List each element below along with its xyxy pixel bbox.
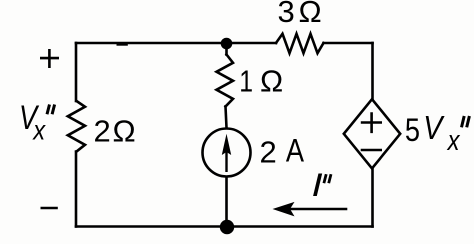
wire middle lower: [225, 178, 228, 228]
polarity plus sign top-left: [40, 49, 59, 68]
node dot bottom: [220, 220, 234, 234]
wire middle upper: [225, 43, 228, 55]
wire top-left horizontal: [76, 42, 276, 45]
dependent source diamond: [344, 99, 400, 168]
svg-text:V: V: [423, 109, 445, 146]
wire right upper vertical: [371, 43, 374, 99]
label double prime (left V_x''): [47, 105, 55, 115]
svg-text:I: I: [312, 167, 323, 203]
wire left vertical upper: [75, 43, 78, 101]
wire bottom horizontal: [76, 225, 373, 228]
wire middle to current source: [226, 107, 227, 128]
svg-text:5: 5: [405, 113, 420, 149]
current arrow I'' shaft: [288, 208, 346, 211]
svg-text:x: x: [446, 124, 461, 157]
node dot top: [221, 38, 233, 50]
current source arrow pointing up: [222, 134, 231, 155]
svg-text:Ω: Ω: [299, 0, 322, 29]
label double prime (I''): [324, 174, 331, 183]
current source 2A circle: [203, 129, 251, 177]
svg-text:2: 2: [94, 114, 111, 149]
resistor R1 3 ohm (horizontal zigzag): [276, 34, 324, 53]
minus sign inside diamond: [361, 149, 382, 152]
svg-text:Ω: Ω: [260, 64, 283, 99]
wire right lower vertical: [371, 168, 374, 226]
wire top-right horizontal: [324, 42, 373, 45]
polarity minus sign bottom-left: [41, 207, 58, 210]
wire left vertical lower: [75, 152, 78, 227]
svg-text:x: x: [31, 113, 46, 145]
current arrow I'' head pointing left: [273, 202, 295, 217]
resistor R2 2 ohm (vertical zigzag): [68, 101, 85, 152]
svg-text:2: 2: [260, 135, 277, 170]
svg-text:A: A: [286, 133, 304, 169]
svg-text:3: 3: [278, 0, 295, 29]
resistor R3 1 ohm (vertical zigzag): [217, 55, 234, 107]
svg-text:1: 1: [239, 64, 253, 98]
label double prime (right 5V_x''): [462, 116, 470, 127]
svg-text:Ω: Ω: [113, 114, 136, 149]
plus sign inside diamond: [361, 112, 382, 133]
